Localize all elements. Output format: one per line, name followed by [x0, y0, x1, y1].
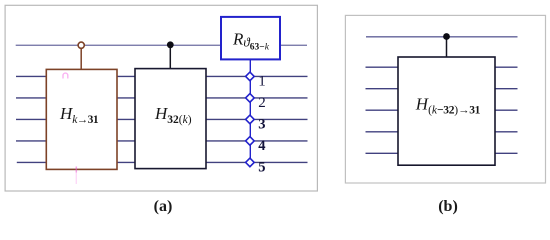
pink artifact line 2 [75, 145, 77, 168]
diamond node 3 [246, 115, 255, 124]
svg-text:5: 5 [258, 160, 265, 176]
pink artifact tail below box [75, 173, 77, 185]
wire q2 (b) [366, 88, 518, 90]
svg-text:4: 4 [258, 138, 265, 154]
svg-text:(a): (a) [154, 198, 173, 215]
gate box H_(k-32)->31 [398, 57, 495, 165]
filled control dot on q0 [167, 41, 174, 48]
wire q1 [16, 75, 308, 77]
wire q5 [17, 161, 308, 163]
panel (b) frame [345, 15, 545, 183]
diamond node 2 [246, 94, 255, 103]
pink artifact line 1 [56, 95, 58, 112]
wire q3 [16, 118, 308, 120]
control wire (brown) to gate H_k->31 [80, 48, 82, 69]
wire q5 (b) [366, 152, 518, 154]
wire q1 (b) [366, 66, 518, 68]
svg-text:1: 1 [258, 74, 266, 90]
vertical bus from R gate (blue) [249, 59, 251, 162]
wire q3 (b) [366, 109, 518, 111]
diamond node 1 [246, 72, 255, 81]
wire q2 [16, 97, 308, 99]
control wire (black) to gate H_32(k) [169, 45, 171, 69]
control wire (black) to gate H_(k-32)->31 [446, 37, 448, 58]
pink artifact small n-shape [63, 73, 68, 78]
svg-text:2: 2 [258, 95, 266, 111]
gate box R_theta63-k [221, 17, 280, 60]
gate box H_k->31 [46, 69, 117, 169]
pink artifact tick crossing box border [75, 167, 77, 173]
filled control dot on q0 (b) [443, 33, 450, 40]
wire q0 (top control wire, panel b) [366, 36, 518, 38]
svg-text:3: 3 [258, 117, 265, 133]
diamond node 4 [246, 137, 255, 146]
wire q4 (b) [366, 131, 518, 133]
gate box H_32(k) [135, 69, 206, 169]
diamond node 5 [246, 158, 255, 167]
open-circle control (anti-control) on q0 [78, 42, 84, 48]
wire q4 [16, 140, 308, 142]
wire q0 (top control wire, panel a) [16, 44, 307, 46]
panel (a) frame [5, 5, 317, 191]
svg-text:(b): (b) [438, 198, 458, 215]
